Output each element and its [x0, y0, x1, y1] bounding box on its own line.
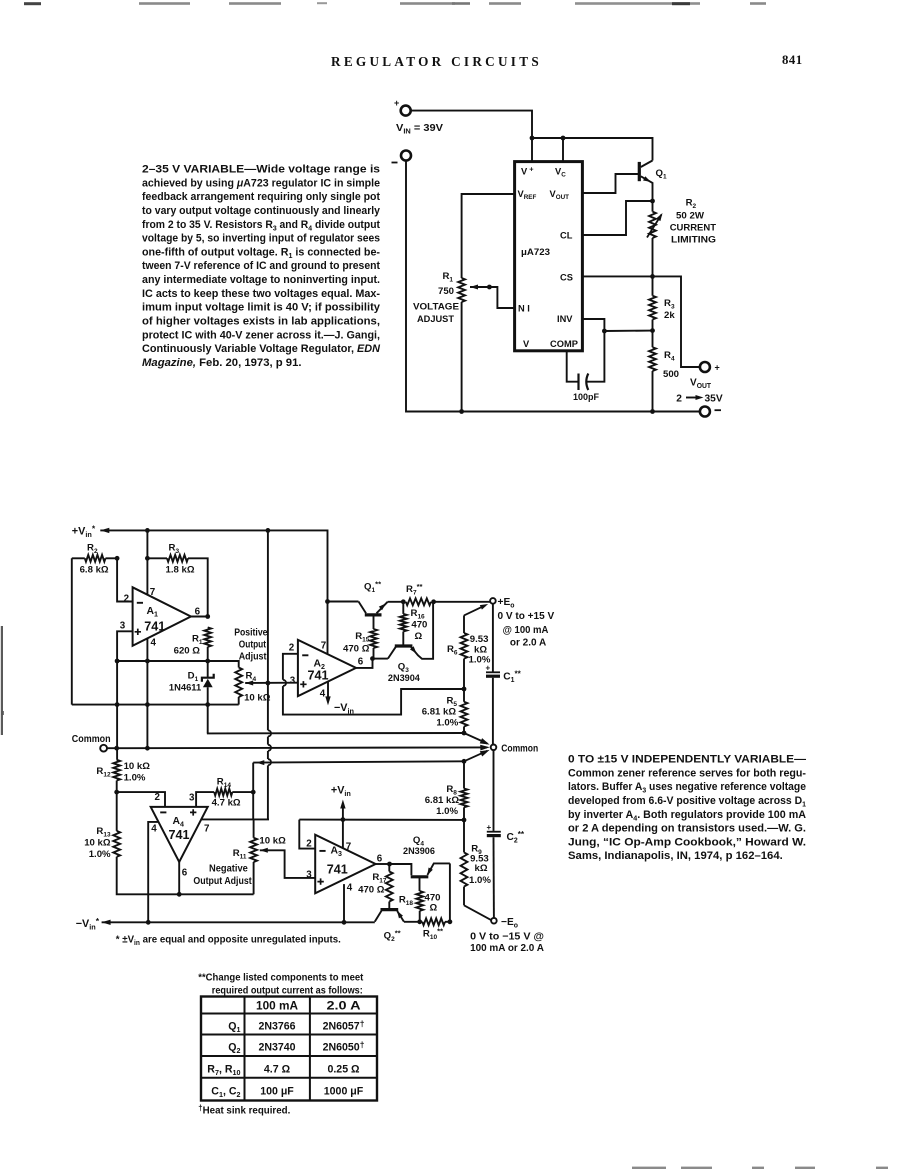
svg-text:Ω: Ω	[430, 903, 438, 914]
svg-text:4: 4	[320, 688, 326, 699]
svg-text:or 2.0 A: or 2.0 A	[510, 638, 547, 649]
svg-text:+: +	[486, 664, 491, 673]
svg-text:10 kΩ: 10 kΩ	[124, 761, 151, 772]
svg-text:2: 2	[155, 792, 161, 803]
svg-text:741: 741	[144, 620, 165, 634]
svg-text:Magazine, Feb. 20, 1973, p 91.: Magazine, Feb. 20, 1973, p 91.	[142, 357, 302, 369]
svg-text:Common: Common	[501, 744, 538, 755]
svg-text:Positive: Positive	[234, 628, 268, 639]
svg-text:+: +	[487, 823, 492, 832]
svg-text:* ±Vin are equal and opposite: * ±Vin are equal and opposite unregulate…	[116, 935, 341, 947]
svg-text:+: +	[715, 363, 720, 373]
svg-text:6: 6	[182, 867, 188, 878]
svg-text:by inverter A4. Both regulator: by inverter A4. Both regulators provide …	[568, 809, 806, 822]
svg-text:10 kΩ: 10 kΩ	[84, 838, 111, 849]
svg-text:Adjust: Adjust	[239, 652, 267, 663]
svg-text:35V: 35V	[705, 394, 723, 405]
svg-text:CURRENT: CURRENT	[670, 223, 716, 234]
svg-text:Common: Common	[72, 734, 111, 745]
svg-text:lators. Buffer A3 uses negativ: lators. Buffer A3 uses negative referenc…	[568, 781, 806, 794]
svg-text:one-fifth of output voltage. R: one-fifth of output voltage. R1 is conne…	[142, 246, 380, 259]
svg-text:9.53: 9.53	[470, 634, 489, 645]
svg-text:741: 741	[169, 828, 190, 842]
svg-text:0 V to −15 V @: 0 V to −15 V @	[470, 932, 544, 943]
svg-text:Jung, “IC Op-Amp Cookbook,” Ho: Jung, “IC Op-Amp Cookbook,” Howard W.	[568, 836, 806, 848]
svg-text:3: 3	[290, 675, 296, 686]
svg-text:10 kΩ: 10 kΩ	[259, 836, 286, 847]
svg-text:4.7 Ω: 4.7 Ω	[264, 1064, 291, 1076]
svg-text:achieved by using μA723 regula: achieved by using μA723 regulator IC in …	[142, 177, 380, 189]
svg-text:or 2 A depending on transistor: or 2 A depending on transistors used.—W.…	[568, 823, 806, 835]
svg-text:470: 470	[411, 620, 427, 631]
svg-text:6: 6	[358, 657, 364, 668]
svg-text:1.0%: 1.0%	[436, 718, 458, 729]
svg-text:Common zener reference serves: Common zener reference serves for both r…	[568, 767, 806, 779]
svg-text:μA723: μA723	[521, 247, 550, 258]
svg-text:4: 4	[347, 882, 353, 893]
svg-text:2N3740: 2N3740	[258, 1042, 295, 1054]
svg-text:2: 2	[289, 642, 295, 653]
svg-text:CS: CS	[560, 273, 573, 283]
svg-text:@ 100 mA: @ 100 mA	[503, 625, 549, 636]
svg-text:6.81 kΩ: 6.81 kΩ	[422, 707, 457, 718]
svg-text:Negative: Negative	[209, 864, 248, 875]
svg-text:1000 μF: 1000 μF	[324, 1086, 364, 1098]
svg-text:0.25 Ω: 0.25 Ω	[327, 1064, 360, 1076]
svg-text:3: 3	[120, 621, 126, 632]
svg-text:tween 7-V reference of IC and: tween 7-V reference of IC and ground to …	[142, 260, 380, 272]
svg-text:741: 741	[308, 669, 329, 683]
svg-text:620 Ω: 620 Ω	[174, 646, 201, 657]
svg-text:kΩ: kΩ	[475, 863, 488, 874]
svg-text:4: 4	[151, 823, 157, 834]
svg-text:to vary output voltage continu: to vary output voltage continuously and …	[142, 205, 381, 217]
svg-text:developed from 6.6-V positive: developed from 6.6-V positive voltage ac…	[568, 795, 806, 808]
svg-text:any intermediate voltage to no: any intermediate voltage to noninverting…	[142, 274, 380, 286]
svg-text:7: 7	[150, 587, 156, 598]
svg-text:7: 7	[346, 842, 352, 853]
svg-text:COMP: COMP	[550, 339, 578, 349]
svg-text:2N6057†: 2N6057†	[323, 1018, 365, 1032]
svg-text:1.0%: 1.0%	[469, 875, 491, 886]
svg-text:Continuously Variable Voltage: Continuously Variable Voltage Regulator,…	[142, 343, 381, 355]
svg-text:6: 6	[377, 853, 383, 864]
svg-text:7: 7	[321, 640, 327, 651]
svg-text:2N3766: 2N3766	[258, 1021, 295, 1033]
svg-text:1.8 kΩ: 1.8 kΩ	[166, 565, 195, 576]
svg-text:LIMITING: LIMITING	[671, 235, 716, 246]
svg-text:6.8 kΩ: 6.8 kΩ	[80, 565, 109, 576]
svg-text:CL: CL	[560, 231, 573, 241]
svg-text:Output: Output	[239, 640, 267, 651]
svg-text:2N3906: 2N3906	[403, 846, 435, 857]
svg-text:2–35 V VARIABLE—Wide voltage: 2–35 V VARIABLE—Wide voltage range is	[142, 164, 380, 176]
svg-text:0 TO ±15 V INDEPENDENTLY: 0 TO ±15 V INDEPENDENTLY VARIABLE—	[568, 754, 807, 766]
svg-text:C1, C2: C1, C2	[211, 1086, 240, 1100]
svg-text:N I: N I	[518, 304, 530, 314]
svg-text:Output Adjust: Output Adjust	[193, 876, 252, 887]
svg-text:100pF: 100pF	[573, 392, 599, 403]
svg-text:7: 7	[204, 823, 210, 834]
svg-text:REGULATOR CIRCUITS: REGULATOR CIRCUITS	[331, 54, 542, 69]
svg-text:50 2W: 50 2W	[676, 211, 705, 222]
svg-text:INV: INV	[557, 314, 573, 324]
svg-text:6.81 kΩ: 6.81 kΩ	[425, 795, 460, 806]
svg-text:Sams, Indianapolis, IN, 1974,: Sams, Indianapolis, IN, 1974, p 162–164.	[568, 850, 783, 862]
svg-text:470 Ω: 470 Ω	[358, 885, 385, 896]
svg-text:4.7 kΩ: 4.7 kΩ	[212, 798, 241, 809]
svg-text:741: 741	[327, 863, 348, 877]
svg-text:841: 841	[782, 53, 803, 67]
svg-text:1.0%: 1.0%	[436, 806, 458, 817]
svg-text:2k: 2k	[664, 310, 675, 321]
svg-text:Ω: Ω	[415, 631, 423, 642]
svg-text:IC acts to keep these two volt: IC acts to keep these two voltages equal…	[142, 288, 380, 300]
svg-text:4: 4	[151, 637, 157, 648]
svg-text:VOLTAGE: VOLTAGE	[413, 302, 460, 313]
svg-text:100 mA or 2.0 A: 100 mA or 2.0 A	[470, 943, 544, 954]
svg-text:**Change listed components to: **Change listed components to meet	[198, 973, 363, 984]
svg-text:required output current as fol: required output current as follows:	[212, 986, 363, 997]
svg-text:voltage by 5, so inverting inp: voltage by 5, so inverting input of regu…	[142, 233, 380, 245]
svg-text:2N6050†: 2N6050†	[323, 1039, 365, 1053]
svg-text:of higher voltages exists in l: of higher voltages exists in lab applica…	[142, 316, 380, 328]
svg-text:V: V	[523, 339, 530, 349]
svg-text:1N4611: 1N4611	[169, 683, 202, 694]
svg-text:feedback arrangement requiring: feedback arrangement requiring only sing…	[142, 191, 380, 203]
svg-text:0 V to +15 V: 0 V to +15 V	[498, 611, 555, 622]
svg-text:2.0 A: 2.0 A	[327, 1000, 362, 1013]
svg-text:VIN = 39V: VIN = 39V	[396, 122, 443, 136]
svg-text:ADJUST: ADJUST	[417, 314, 454, 325]
svg-text:1.0%: 1.0%	[89, 849, 111, 860]
svg-text:2: 2	[124, 593, 130, 604]
svg-text:+: +	[394, 98, 399, 108]
svg-text:2N3904: 2N3904	[388, 673, 421, 684]
svg-text:1.0%: 1.0%	[124, 773, 146, 784]
svg-text:imum input voltage limit is 40: imum input voltage limit is 40 V; if pos…	[142, 302, 381, 314]
svg-text:from 2 to 35 V. Resistors R3 a: from 2 to 35 V. Resistors R3 and R4 divi…	[142, 219, 380, 232]
svg-text:500: 500	[663, 369, 679, 380]
svg-text:2: 2	[676, 394, 682, 405]
svg-text:100 μF: 100 μF	[260, 1086, 294, 1098]
svg-text:750: 750	[438, 286, 454, 297]
svg-text:470 Ω: 470 Ω	[343, 644, 370, 655]
svg-text:100 mA: 100 mA	[256, 1000, 299, 1013]
svg-text:protect IC with 40-V zener acr: protect IC with 40-V zener across it.—J.…	[142, 329, 380, 341]
svg-text:3: 3	[189, 793, 195, 804]
svg-text:10 kΩ: 10 kΩ	[244, 693, 271, 704]
